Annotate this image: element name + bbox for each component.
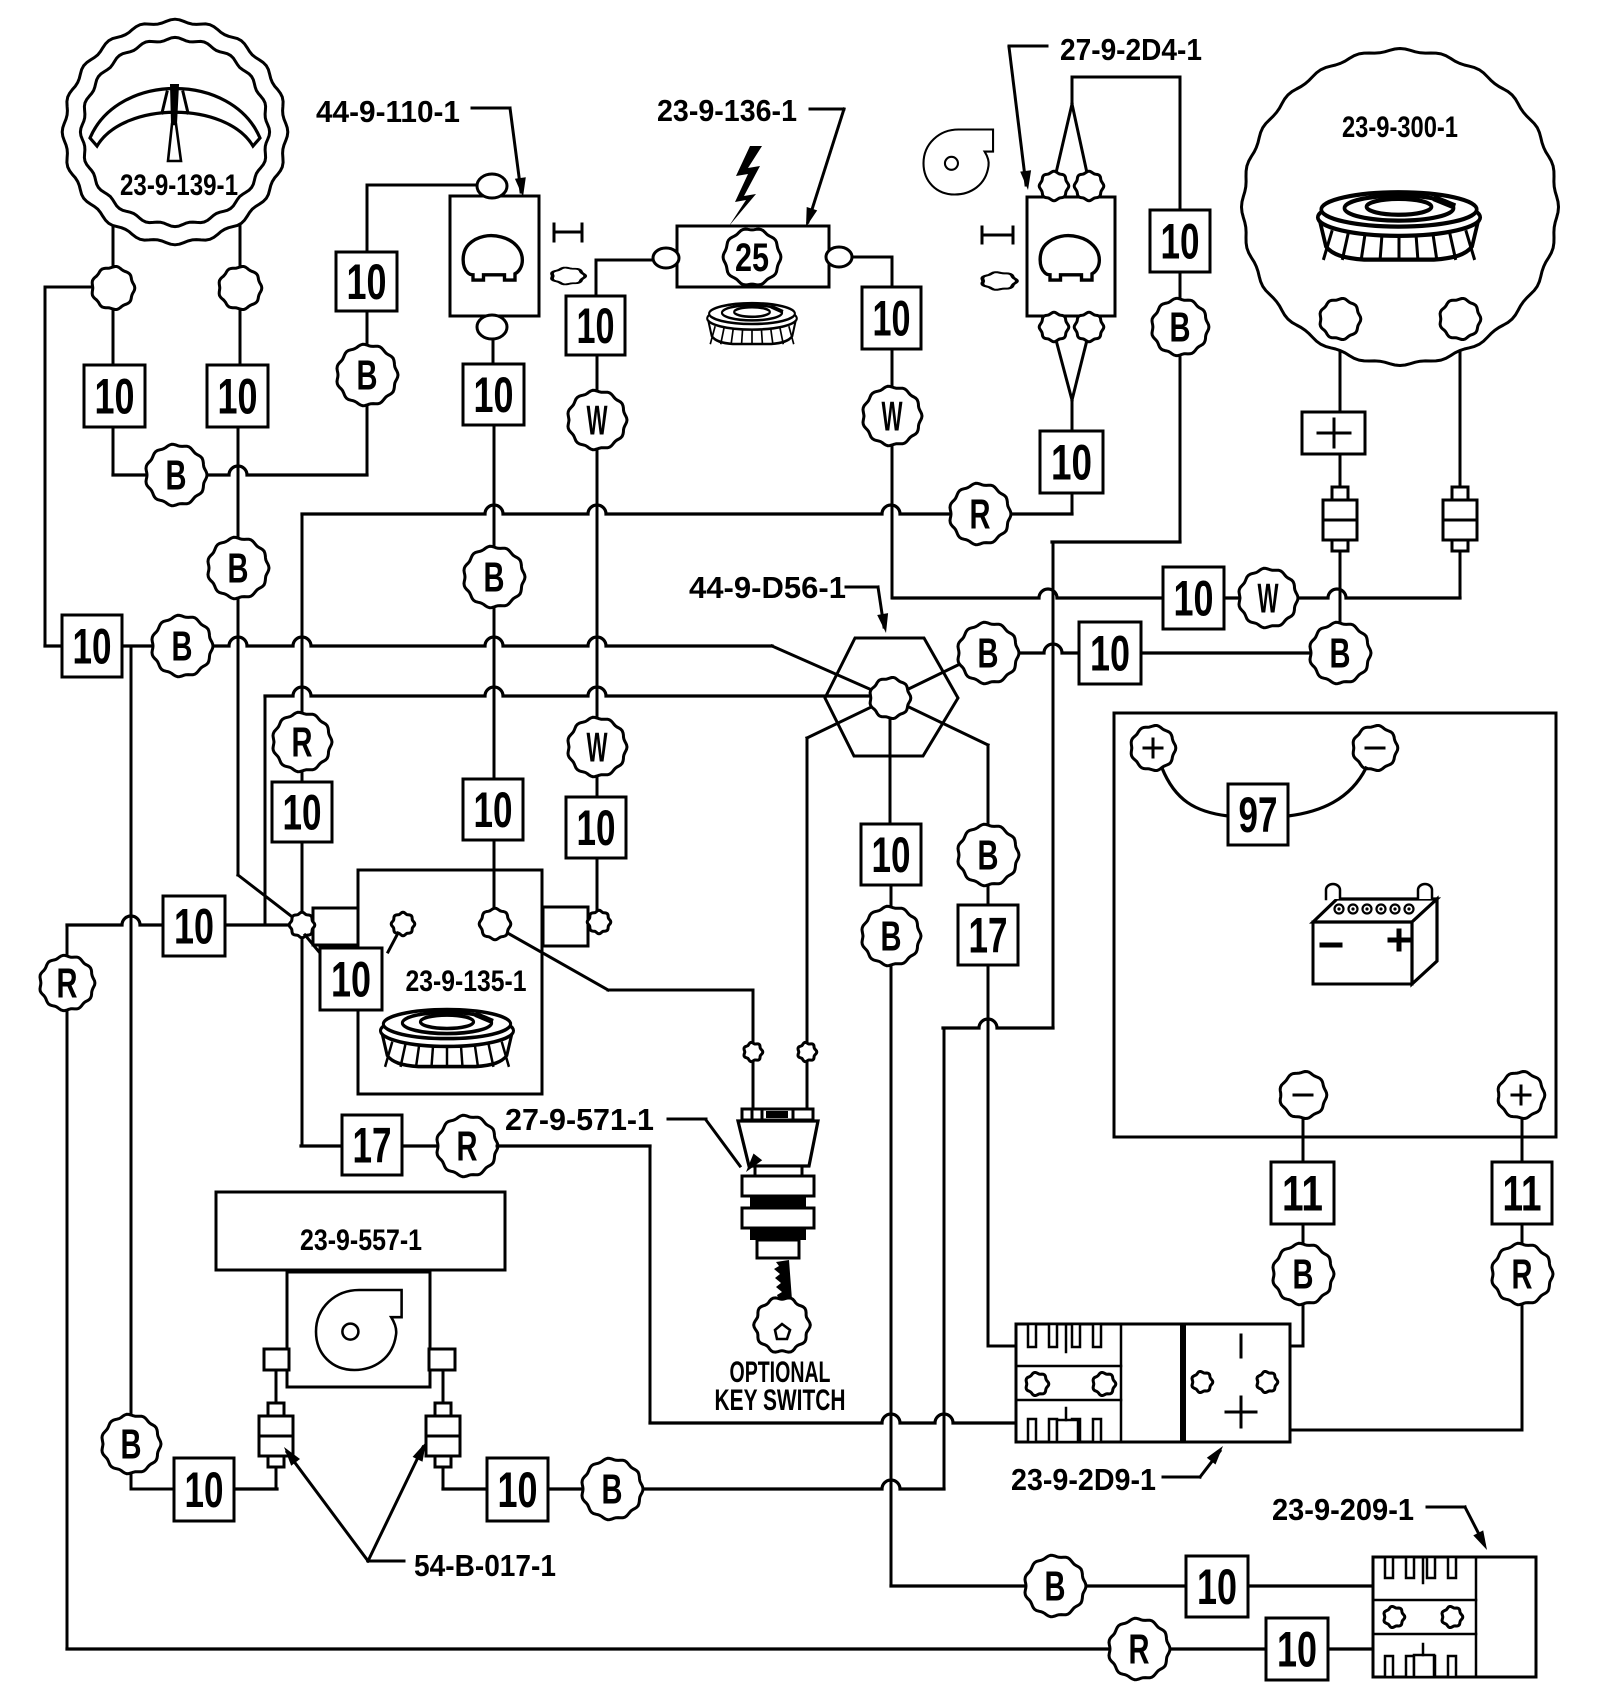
wire x=67 R column [66, 925, 69, 1649]
label 11 box right [1492, 1162, 1552, 1224]
label 10 box (x302) [272, 782, 332, 842]
label 10 box (x1072) [1040, 431, 1103, 493]
svg-text:10: 10 [873, 291, 911, 347]
wire x=650 drop [649, 1146, 652, 1423]
label 23-9-209-1 [1272, 1492, 1487, 1550]
terminal 300-1 left [1320, 299, 1361, 340]
blower icon top [924, 130, 994, 195]
svg-text:23-9-139-1: 23-9-139-1 [120, 169, 238, 202]
terminal relay1 bottom [477, 315, 507, 339]
svg-text:10: 10 [1174, 571, 1214, 627]
connector 23-9-209-1 [1373, 1557, 1536, 1677]
svg-text:R: R [970, 490, 991, 537]
terminal battery + bottom [1498, 1072, 1545, 1119]
breaker 25A marker [723, 229, 781, 285]
svg-text:23-9-2D9-1: 23-9-2D9-1 [1011, 1462, 1156, 1497]
svg-text:B: B [172, 622, 193, 669]
svg-text:17: 17 [969, 908, 1008, 964]
label 10 box (y1489 right) [487, 1458, 548, 1521]
wire 135-1 diagonal to key net [504, 931, 753, 990]
label 10 box (y653) [1079, 622, 1141, 684]
wire y=925 R to terminal junction [67, 916, 294, 925]
terminal battery - bottom [1280, 1072, 1327, 1119]
svg-text:10: 10 [1051, 435, 1092, 491]
svg-text:B: B [1170, 303, 1191, 350]
node W (x597 lower) [568, 717, 627, 776]
label 44-9-D56-1 [689, 570, 888, 633]
node W (x892) [863, 386, 922, 445]
wire hexagon spoke upper-right [890, 663, 962, 698]
label OPTIONAL [730, 1356, 831, 1389]
svg-text:B: B [978, 831, 999, 878]
svg-text:10: 10 [1197, 1559, 1237, 1615]
wire x=1180 relay2 feed [1072, 77, 1180, 542]
node B (x367) [337, 344, 398, 405]
label 10 box (y1649) [1266, 1618, 1328, 1680]
label 54-B-017-1 [284, 1442, 556, 1583]
label 17 box (x988) [958, 905, 1018, 965]
node R (y1649) [1109, 1618, 1170, 1679]
fuse holder right [1443, 487, 1477, 551]
svg-text:10: 10 [1277, 1622, 1317, 1678]
wire net-C bus y=696 [265, 687, 872, 696]
svg-text:10: 10 [283, 785, 322, 841]
svg-text:R: R [292, 718, 313, 765]
svg-text:W: W [587, 723, 608, 770]
wire x=988 lower-right spoke chain [987, 745, 990, 1346]
stub connector 135-1 left [313, 908, 358, 945]
wire y=1489 fuse chain left [234, 1487, 277, 1490]
horn 23-9-300-1 [1242, 49, 1559, 366]
svg-text:10: 10 [498, 1462, 538, 1518]
oval mark left of relay2 [982, 272, 1017, 290]
fuse 54-B-017-1 left [259, 1403, 293, 1467]
wire hexagon spoke lower-right [890, 698, 988, 745]
label 11 box left [1271, 1162, 1334, 1224]
terminal 135-1 inner-left [388, 912, 415, 952]
key icon [754, 1260, 811, 1352]
wire x=367 column [366, 185, 369, 475]
wire R to corner x650 [497, 1145, 650, 1148]
terminal relay2 bottom-left [1039, 312, 1069, 342]
svg-text:B: B [602, 1465, 623, 1512]
svg-text:10: 10 [872, 827, 911, 883]
gauge 23-9-139-1 [62, 19, 288, 245]
svg-text:B: B [228, 544, 249, 591]
wire y=1489 fuse chain to corner x=944 [443, 1480, 944, 1489]
label KEY SWITCH [715, 1384, 846, 1417]
svg-text:R: R [1512, 1250, 1533, 1297]
svg-text:10: 10 [474, 782, 513, 838]
node B (x131) [102, 1414, 161, 1473]
svg-text:17: 17 [353, 1118, 392, 1174]
node B (x494) [464, 546, 525, 607]
terminal battery + top [1131, 726, 1176, 771]
svg-text:27-9-571-1: 27-9-571-1 [505, 1102, 654, 1137]
svg-text:10: 10 [73, 619, 112, 675]
battery compartment box [1114, 713, 1556, 1137]
svg-text:R: R [57, 959, 78, 1006]
wire x=892 W column [891, 349, 894, 598]
wire diagonal x=238 to junction [238, 875, 295, 919]
svg-text:B: B [484, 553, 505, 600]
label 97 box [1228, 784, 1288, 845]
svg-text:44-9-110-1: 44-9-110-1 [316, 94, 460, 129]
wire x=1460 circle right chain [1459, 338, 1462, 598]
junction block 44-9-D56-1 hexagon [825, 638, 958, 756]
wire hexagon spoke lower-left [807, 698, 890, 738]
svg-text:R: R [1129, 1625, 1150, 1672]
wire x=265 drop [264, 696, 267, 925]
wire x=1522 plus chain [1291, 1117, 1522, 1430]
label 10 box (x596) [566, 296, 625, 355]
wire x=807 key switch right lead [806, 738, 809, 1109]
terminal 135-1 top-center [479, 908, 511, 940]
svg-text:B: B [881, 912, 902, 959]
node B (x238) [208, 537, 269, 598]
wire x=131 drop to B [131, 646, 174, 1489]
svg-text:W: W [882, 392, 903, 439]
terminal breaker right [826, 247, 852, 267]
terminal battery - top [1353, 726, 1398, 771]
wire junction to 10 box [305, 935, 320, 953]
wire x=238 column [237, 427, 240, 875]
wire x=1053 drop [1052, 542, 1055, 1028]
terminal relay1 top [477, 174, 507, 198]
svg-text:10: 10 [474, 367, 514, 423]
wire y=475 gauge to relay column [113, 466, 367, 475]
label 10 box (x67 y925) [163, 896, 225, 956]
svg-text:25: 25 [735, 236, 769, 280]
cone icon under breaker [707, 303, 797, 344]
terminal gauge left [92, 267, 135, 310]
node B (y646) [152, 615, 213, 676]
node B (x988 y855) [958, 824, 1019, 885]
svg-text:B: B [1330, 629, 1351, 676]
plus box [1302, 412, 1365, 454]
wire y=542 jog from B column [1052, 540, 1180, 543]
wire y=1649 bottom bus [67, 1647, 1373, 1650]
label 10 box (gauge right) [207, 365, 268, 427]
wire y=1146 R-17 run [301, 1144, 650, 1147]
wire x=493 relay stem [492, 338, 495, 364]
svg-text:10: 10 [1090, 626, 1130, 682]
capacitor mark left of relay2 [982, 227, 1013, 243]
svg-text:11: 11 [1503, 1166, 1542, 1222]
wire x=1340 circle left chain [1339, 338, 1342, 625]
svg-text:10: 10 [218, 369, 258, 425]
wire x=113 column [112, 224, 115, 475]
label box 23-9-557-1 [216, 1192, 505, 1270]
node B (x891) [862, 906, 921, 965]
wire x=1303 minus chain [1290, 1117, 1303, 1346]
wire x=494 column [493, 425, 496, 910]
label 10 box (x597 lower) [566, 797, 626, 858]
wire x=892 breaker right corner [846, 257, 892, 287]
wire y=1586 to connector 23-9-209-1 top port [891, 1584, 1373, 1587]
svg-text:23-9-557-1: 23-9-557-1 [300, 1224, 422, 1257]
svg-text:27-9-2D4-1: 27-9-2D4-1 [1060, 32, 1202, 67]
terminal key right [798, 1042, 817, 1061]
svg-text:10: 10 [347, 254, 387, 310]
label 10 box (x891 below hexagon) [861, 824, 921, 885]
node W (x597 upper) [568, 390, 627, 449]
connector 23-9-2D9-1 [1016, 1324, 1290, 1442]
svg-text:KEY SWITCH: KEY SWITCH [715, 1384, 846, 1417]
wire x=302 column [301, 514, 304, 1146]
wire y=653 B to B bus [1018, 644, 1310, 653]
wire x=891 hexagon bottom chain [890, 885, 893, 1586]
label 10 box (y598) [1163, 567, 1224, 629]
relay 44-9-110-1 box [450, 196, 539, 316]
svg-text:10: 10 [174, 899, 214, 955]
fuse holder left [1323, 487, 1357, 551]
label 10 box (x367) [336, 252, 397, 311]
junction terminal x=302 [289, 912, 315, 938]
wire x=276 fuse drop [275, 1370, 278, 1489]
label 10 box (gauge left) [84, 365, 145, 427]
node B (x1055) [1025, 1555, 1086, 1616]
relay 27-9-2D4-1 box [1027, 197, 1115, 316]
svg-text:97: 97 [1239, 787, 1278, 843]
hexagon center terminal [870, 678, 911, 719]
svg-text:54-B-017-1: 54-B-017-1 [414, 1548, 556, 1583]
svg-text:B: B [978, 629, 999, 676]
wire y=1346 into connector left [988, 1345, 1016, 1348]
svg-text:10: 10 [185, 1462, 224, 1518]
node B (x1180) [1152, 298, 1209, 355]
wire x=596 breaker left corner [596, 260, 653, 296]
svg-text:10: 10 [577, 800, 616, 856]
stub connector 135-1 right [543, 907, 588, 946]
terminal breaker left [653, 248, 679, 268]
wire x=597 column [596, 355, 599, 912]
label 10 box (left edge) [62, 615, 122, 677]
node R (x1522) [1492, 1243, 1553, 1304]
svg-text:W: W [587, 396, 608, 443]
terminal 300-1 right [1440, 299, 1481, 340]
wire x=1072 relay2 V-top [1056, 77, 1087, 173]
label 27-9-2D4-1 [1009, 32, 1202, 190]
svg-text:B: B [166, 451, 187, 498]
svg-text:44-9-D56-1: 44-9-D56-1 [689, 570, 846, 605]
svg-text:10: 10 [331, 952, 371, 1008]
blower box [287, 1272, 430, 1387]
capacitor mark right of relay1 [554, 224, 582, 241]
label 10 box (under relay1) [463, 364, 524, 425]
wire x=240 gauge stem [239, 222, 242, 365]
svg-text:11: 11 [1282, 1166, 1323, 1222]
terminal relay2 bottom-right [1074, 312, 1104, 342]
wire y=598 fuse/W bus [893, 589, 1460, 598]
wire curve + to 97 [1162, 768, 1228, 816]
battery icon [1313, 884, 1437, 984]
node B (y475) [146, 444, 207, 505]
label 23-9-136-1 [657, 93, 844, 227]
svg-text:B: B [1293, 1250, 1314, 1297]
svg-text:10: 10 [95, 369, 135, 425]
label 10 box (x892) [862, 287, 921, 349]
node B (y1489) [582, 1458, 643, 1519]
flange right [429, 1349, 455, 1370]
key switch 27-9-571-1 [738, 1109, 818, 1258]
wire y=1028 jog [943, 1019, 1053, 1028]
wire y=287 to gauge left terminal [45, 286, 92, 289]
label 10 box (x1180) [1150, 210, 1210, 272]
terminal relay2 top-left [1039, 171, 1069, 201]
node R (y1146) [437, 1115, 498, 1176]
node R (x67) [40, 955, 95, 1010]
oval mark right of relay1 [552, 268, 585, 285]
node R (line A) [950, 483, 1011, 544]
lightning bolt [729, 146, 771, 226]
node B (x1340) [1310, 622, 1371, 683]
svg-text:R: R [457, 1122, 478, 1169]
svg-text:B: B [357, 351, 378, 398]
label 10 box (y1489 left) [174, 1458, 234, 1521]
wire net-A bus y=514 [302, 505, 1072, 514]
svg-text:23-9-136-1: 23-9-136-1 [657, 93, 797, 128]
wire y=185 relay top to left [367, 184, 478, 187]
terminal gauge right [219, 267, 262, 310]
wire x=45 left drop [44, 287, 47, 646]
wire hexagon spoke down [889, 698, 892, 824]
svg-text:23-9-135-1: 23-9-135-1 [406, 965, 527, 998]
label 27-9-571-1 [505, 1102, 762, 1172]
label 17 box (y1146) [342, 1115, 402, 1175]
breaker 23-9-136-1 box [677, 226, 829, 287]
svg-text:B: B [121, 1420, 142, 1467]
label 23-9-2D9-1 [1011, 1446, 1223, 1497]
wire x=753 key switch left lead [752, 990, 755, 1109]
node R (x302) [273, 712, 332, 771]
wire hexagon spoke upper-left [772, 646, 890, 698]
label 10 box (y1586) [1186, 1556, 1248, 1617]
wire y=1423 key net to connector [650, 1414, 1016, 1423]
terminal 135-1 right [587, 910, 611, 934]
flange left [264, 1349, 289, 1370]
terminal key left [744, 1042, 763, 1061]
svg-text:23-9-300-1: 23-9-300-1 [1342, 111, 1458, 144]
svg-text:23-9-209-1: 23-9-209-1 [1272, 1492, 1414, 1527]
wire x=443 fuse drop [442, 1370, 445, 1489]
label 10 box (inside 135-1) [320, 948, 382, 1010]
node B (x1303) [1273, 1243, 1334, 1304]
wire x=1072 relay2 V-bottom [1056, 340, 1087, 514]
svg-text:W: W [1258, 574, 1279, 621]
svg-text:10: 10 [1161, 214, 1200, 270]
wire x=944 drop [943, 1028, 946, 1489]
terminal relay2 top-right [1074, 171, 1104, 201]
svg-text:10: 10 [577, 298, 615, 354]
node B (x988 y653) [958, 622, 1019, 683]
svg-text:B: B [1045, 1562, 1066, 1609]
label 44-9-110-1 [316, 94, 526, 197]
node W (y598) [1239, 568, 1298, 627]
label 10 box (x494 lower) [463, 779, 523, 840]
wire net-B bus y=646 from left 10 box to hexagon [45, 637, 772, 646]
horn box 23-9-135-1 [358, 870, 542, 1094]
wire curve - to 97 [1288, 768, 1366, 816]
fuse 54-B-017-1 right [426, 1403, 460, 1467]
